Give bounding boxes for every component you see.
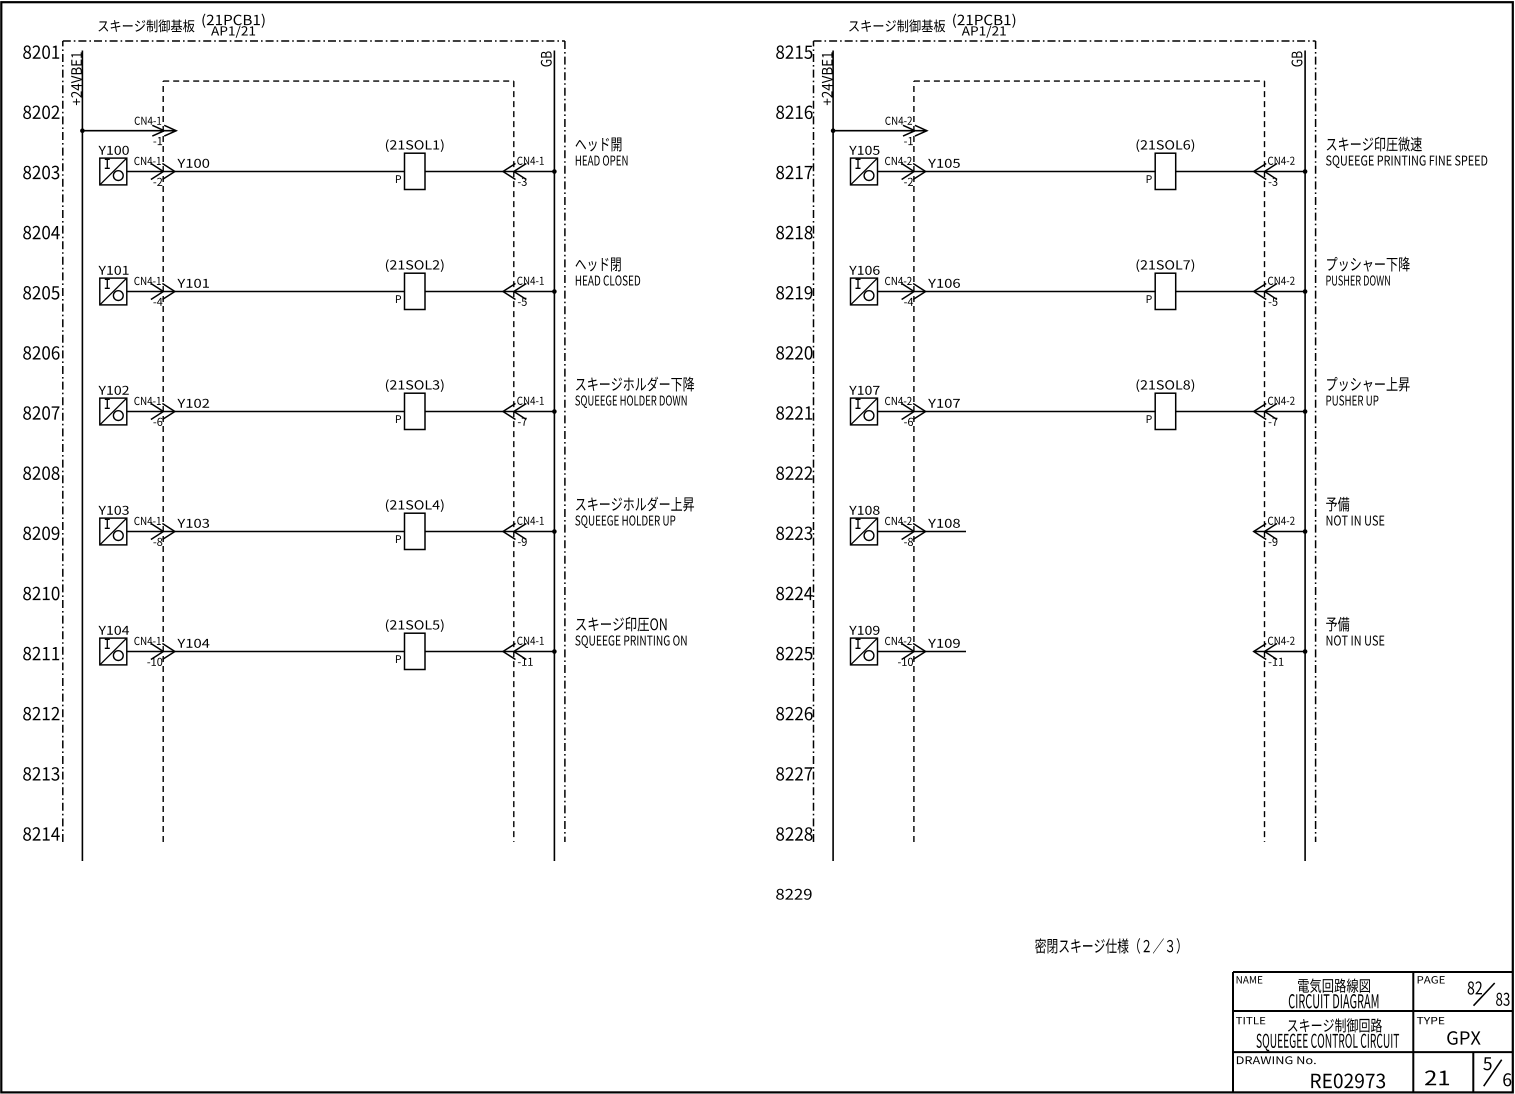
junction dot on GB bus [1303, 289, 1308, 294]
output driver Y103 (I/O) [98, 506, 128, 545]
ground bus GB (L) [541, 51, 555, 862]
node row numbers 8201-8214 [23, 45, 60, 840]
connector arrow CN4-2 pin -4 [885, 277, 926, 306]
net label Y100 [177, 159, 209, 168]
wire solenoid to GB [1176, 411, 1305, 413]
output driver Y107 (I/O) [849, 386, 879, 425]
solenoid 21SOL4 [386, 499, 444, 549]
function label PUSHER UP [1326, 377, 1409, 406]
connector arrow CN4-1 pin -10 [134, 637, 175, 666]
board outline dashed box (R) [814, 41, 1316, 842]
connector arrow CN4-1 pin -9 (return) [503, 517, 544, 546]
connector arrow CN4-2 pin -2 [885, 157, 926, 186]
function label SQUEEGE PRINTING FINE SPEED [1326, 137, 1487, 168]
function label PUSHER DOWN [1326, 257, 1409, 286]
connector arrow CN4-1 pin -7 (return) [503, 397, 544, 426]
junction dot on GB bus [1303, 529, 1308, 534]
connector arrow CN4-2 pin -8 [885, 517, 926, 546]
title block PAGE cell 82/83 [1418, 976, 1510, 1006]
output driver Y105 (I/O) [849, 146, 879, 185]
board outline dashed box (L) [63, 41, 565, 842]
net label Y104 [177, 639, 209, 648]
wire +24V feed to connector CN4-2-1 [833, 130, 927, 132]
junction dot on GB bus [1303, 649, 1308, 654]
output driver Y104 (I/O) [98, 626, 129, 665]
wire +24V feed to connector CN4-1-1 [82, 130, 176, 132]
power rail +24VBE1 (R) [822, 51, 833, 862]
connector arrow CN4-2 pin -9 (return) [1254, 517, 1295, 546]
connector arrow CN4-1 pin -11 (return) [503, 637, 544, 666]
wire solenoid to GB [425, 291, 554, 293]
solenoid 21SOL5 [386, 619, 444, 669]
function label NOT IN USE [1326, 497, 1384, 526]
connector arrow CN4-2 pin -6 [885, 397, 926, 426]
solenoid 21SOL6 [1137, 139, 1195, 189]
net label Y103 [177, 519, 209, 528]
title block TITLE cell [1236, 1017, 1399, 1051]
connector arrow CN4-1 pin -4 [134, 277, 175, 306]
junction dot on GB bus [1303, 409, 1308, 414]
function label NOT IN USE [1326, 617, 1384, 646]
function label SQUEEGE HOLDER UP [575, 497, 694, 528]
junction dot on +24V rail [80, 128, 85, 133]
ground bus GB (R) [1291, 51, 1305, 862]
connector arrow CN4-2 pin -3 (return) [1254, 157, 1295, 186]
junction dot on GB bus [552, 409, 557, 414]
connector arrow CN4-2 pin -10 [885, 637, 926, 666]
net label Y109 [928, 639, 960, 648]
power rail +24VBE1 (L) [71, 51, 82, 862]
function label HEAD CLOSED [576, 257, 641, 285]
title block sheet number 21 [1425, 1070, 1449, 1085]
junction dot on GB bus [1303, 169, 1308, 174]
output driver Y108 (I/O) [849, 506, 879, 545]
connector boundary dashed box (L) [163, 81, 514, 842]
note 密閉スキージ仕様(2/3) [1035, 938, 1180, 954]
wire solenoid to GB [425, 411, 554, 413]
net label Y101 [177, 279, 209, 288]
net label Y108 [928, 519, 960, 528]
output driver Y109 (I/O) [849, 626, 879, 665]
junction dot on GB bus [552, 289, 557, 294]
junction dot on +24V rail [831, 128, 836, 133]
junction dot on GB bus [552, 169, 557, 174]
output driver Y101 (I/O) [98, 266, 128, 305]
connector arrow CN4-2 pin -11 (return) [1254, 637, 1295, 666]
net label Y107 [928, 399, 960, 408]
output driver Y102 (I/O) [98, 386, 128, 425]
board label 21PCB1 (L) [98, 14, 264, 38]
connector arrow CN4-1-1 pin -1 [135, 117, 177, 146]
wire solenoid to GB [425, 171, 554, 173]
solenoid 21SOL2 [386, 259, 444, 309]
connector arrow CN4-1 pin -3 (return) [503, 157, 544, 186]
junction dot on GB bus [552, 649, 557, 654]
connector arrow CN4-1 pin -6 [134, 397, 175, 426]
function label SQUEEGE PRINTING ON [575, 617, 686, 648]
wire Y104 to solenoid [127, 651, 405, 653]
solenoid 21SOL7 [1137, 259, 1195, 309]
solenoid 21SOL3 [386, 379, 444, 429]
connector arrow CN4-1 pin -2 [134, 157, 175, 186]
output driver Y106 (I/O) [849, 266, 879, 305]
title block frame [1233, 972, 1513, 1092]
connector arrow CN4-1 pin -5 (return) [503, 277, 544, 306]
board label 21PCB1 (R) [849, 14, 1015, 38]
wire GB stub [1254, 531, 1305, 533]
solenoid 21SOL1 [386, 139, 444, 189]
wire solenoid to GB [425, 531, 554, 533]
wire Y109 stub [878, 651, 967, 653]
title block NAME cell [1237, 976, 1379, 1008]
wire Y108 stub [878, 531, 967, 533]
connector arrow CN4-2 pin -7 (return) [1254, 397, 1295, 426]
connector arrow CN4-2 pin -5 (return) [1254, 277, 1295, 306]
wire Y102 to solenoid [127, 411, 405, 413]
wire Y101 to solenoid [127, 291, 405, 293]
junction dot on GB bus [552, 529, 557, 534]
title block TYPE cell GPX [1417, 1017, 1481, 1045]
wire Y107 to solenoid [878, 411, 1156, 413]
connector arrow CN4-2-1 pin -1 [885, 117, 927, 146]
output driver Y100 (I/O) [98, 146, 128, 185]
net label Y106 [928, 279, 960, 288]
connector arrow CN4-1 pin -8 [134, 517, 175, 546]
solenoid 21SOL8 [1137, 379, 1195, 429]
wire Y106 to solenoid [878, 291, 1156, 293]
wire solenoid to GB [1176, 171, 1305, 173]
wire Y100 to solenoid [127, 171, 405, 173]
wire Y105 to solenoid [878, 171, 1156, 173]
node row numbers 8215-8229 [776, 45, 813, 899]
title block DRAWING No. cell [1237, 1056, 1385, 1088]
function label HEAD OPEN [576, 137, 628, 165]
title block sheet 5/6 [1483, 1057, 1511, 1086]
wire GB stub [1254, 651, 1305, 653]
connector boundary dashed box (R) [914, 81, 1265, 842]
net label Y102 [177, 399, 209, 408]
net label Y105 [928, 159, 960, 168]
wire solenoid to GB [425, 651, 554, 653]
wire solenoid to GB [1176, 291, 1305, 293]
wire Y103 to solenoid [127, 531, 405, 533]
function label SQUEEGE HOLDER DOWN [575, 377, 694, 408]
